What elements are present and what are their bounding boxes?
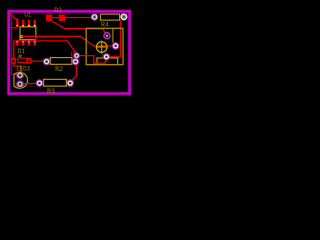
wire: red from R4 right via down and left to relay center via bbox=[109, 20, 121, 57]
board outline (magenta) bbox=[8, 10, 131, 95]
wire: board top edge bbox=[8, 10, 131, 12]
relay crosshair horizontal bbox=[96, 46, 108, 48]
via: relay pad B bbox=[112, 43, 119, 50]
D1 polarity silk mark bbox=[19, 55, 22, 58]
wire: red stub joining the two horizontals at U1 right edge bbox=[35, 36, 37, 41]
wire: board bottom edge bbox=[8, 92, 131, 94]
LED3 pad 2 bbox=[16, 81, 23, 88]
resistor R4 body bbox=[100, 14, 119, 20]
diode D1 pad 1 bbox=[11, 58, 16, 64]
diode D1 pad 2 bbox=[27, 58, 32, 64]
svg-text:R4: R4 bbox=[101, 22, 109, 29]
wire: board right edge bbox=[128, 10, 130, 95]
wire: diagonal from D2 pad1 down to trace then to relay via bbox=[51, 21, 107, 36]
svg-text:LED3: LED3 bbox=[16, 65, 30, 72]
LED3 pad 1 bbox=[16, 72, 23, 79]
wire: red horizontal under U1 bottom pads bbox=[14, 41, 77, 54]
U1 top pads row bbox=[16, 19, 36, 27]
resistor R2 body bbox=[50, 58, 72, 65]
diode D2 pad 1 bbox=[46, 15, 52, 21]
via at R2 pin 1 bbox=[43, 58, 50, 65]
U1 pad drill holes (top row) bbox=[16, 25, 35, 27]
via at R4 pin 1 bbox=[91, 14, 98, 21]
wire: R2 right via down then diagonal to R3 right via bbox=[70, 65, 76, 82]
svg-text:D1: D1 bbox=[18, 48, 26, 55]
wire: D1 pad1 down to LED3 pad 1 bbox=[14, 64, 21, 73]
wire: D1 pad2 to R2 left via bbox=[31, 60, 43, 62]
via at R3 pin 1 bbox=[36, 80, 43, 87]
capacitor C1 pad (red hollow square) bbox=[72, 52, 75, 56]
U1 bottom pads row bbox=[16, 40, 36, 46]
relay internal silk vertical bbox=[112, 28, 114, 42]
via at R4 pin 2 bbox=[121, 14, 127, 20]
LED3 circle outline with flat left side bbox=[14, 72, 28, 88]
wire: board left edge bbox=[7, 10, 9, 95]
wire: red diagonal from board edge to U1 pad 1 bbox=[10, 13, 17, 21]
wire: red vertical from that trace down to D1 pad 1 bbox=[13, 41, 15, 59]
resistor R3 body bbox=[44, 79, 67, 86]
via at R3 pin 2 bbox=[67, 80, 74, 87]
relay K1 body outline bbox=[86, 28, 123, 64]
relay crosshair vertical bbox=[101, 40, 103, 53]
board outline glow bbox=[8, 10, 131, 95]
via at R2 pin 2 bbox=[72, 58, 79, 65]
svg-text:R2: R2 bbox=[55, 66, 63, 73]
wire: LED3 pad2 to R3 left via bbox=[23, 82, 37, 84]
via: relay pad A bbox=[104, 33, 110, 39]
via: relay pad C bbox=[103, 54, 109, 60]
relay crosshair circle bbox=[96, 42, 107, 53]
svg-text:D2: D2 bbox=[54, 7, 62, 14]
wire: stub from maroon trace to U1 pad1 bbox=[12, 27, 18, 29]
relay internal silk line bbox=[97, 58, 118, 65]
wire: maroon trace from upper-left down to LED3 pad 1 bbox=[12, 15, 19, 74]
via V1 bbox=[74, 53, 80, 59]
background bbox=[0, 0, 140, 103]
wire: red from V1 right, down, right below relay box bbox=[79, 56, 106, 64]
wire: link between D2 pads bbox=[52, 17, 58, 19]
wire: red trace from U1 pin1 area right to relay pad (net B) bbox=[21, 36, 112, 46]
op-amp U1 body bbox=[20, 27, 36, 40]
U1 pin 1 marker dot bbox=[20, 35, 23, 38]
svg-text:R3: R3 bbox=[47, 88, 55, 95]
U1 pad drill holes (bottom row) bbox=[16, 41, 35, 43]
wire: D2 pad2 to R4 left via bbox=[65, 17, 92, 19]
svg-text:U1: U1 bbox=[24, 12, 32, 19]
diode D1 body outline bbox=[18, 58, 27, 62]
diode D2 pad 2 bbox=[59, 15, 65, 21]
